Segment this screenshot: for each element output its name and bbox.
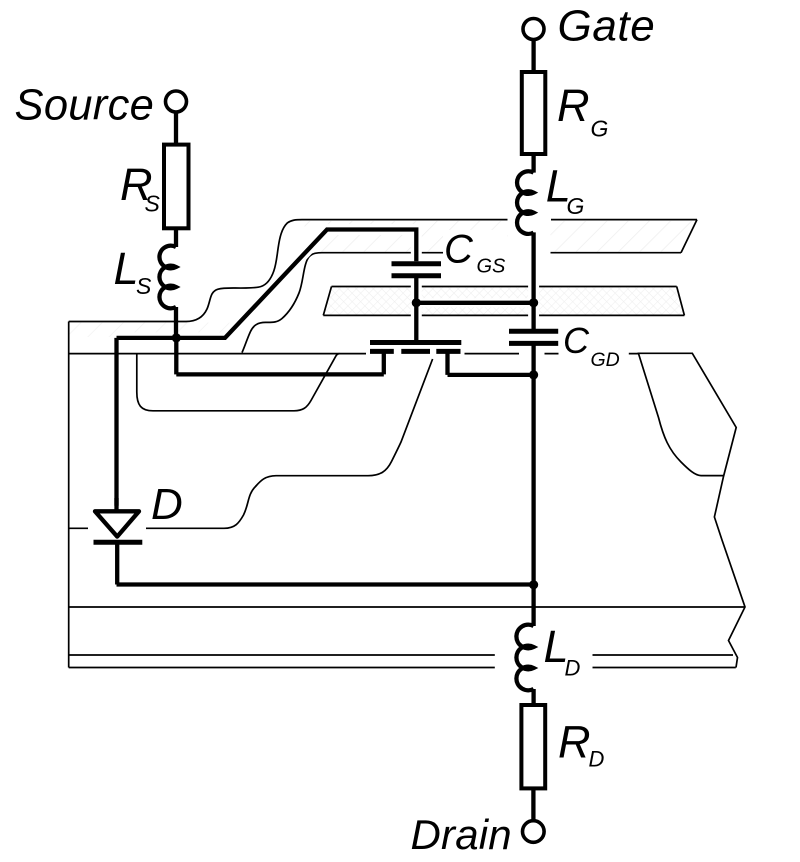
svg-text:G: G <box>591 116 609 142</box>
capacitor CGS <box>392 264 442 276</box>
mosfet drain contact <box>448 351 534 375</box>
white mask right of C_GD wire <box>519 346 545 361</box>
svg-text:D: D <box>565 655 581 680</box>
node diode-drain <box>529 580 538 589</box>
svg-text:L: L <box>114 243 139 294</box>
drain funnel right outline and die right edge <box>638 353 746 667</box>
wire LS to node <box>174 307 178 338</box>
wire CGS to gate node <box>414 276 418 340</box>
svg-text:C: C <box>444 228 474 272</box>
wire RS to LS <box>174 228 178 247</box>
halo drain vert <box>528 343 539 480</box>
diode anode wire <box>114 498 118 511</box>
node CGS-gate <box>412 298 421 307</box>
inductor LS <box>159 246 176 309</box>
white mask under C_GS label <box>443 230 507 277</box>
node mosfet drain <box>529 370 538 379</box>
halo gate vert <box>528 232 539 331</box>
backmetal line upper <box>69 654 733 656</box>
wire RD to drain terminal <box>531 788 535 820</box>
halo source net <box>117 230 417 338</box>
die surface line <box>69 353 639 355</box>
wire CGD to drain <box>531 343 535 626</box>
node gate <box>529 298 538 307</box>
svg-text:G: G <box>567 193 585 219</box>
resistor RD <box>521 705 545 788</box>
svg-text:GD: GD <box>591 349 620 371</box>
wire gate to RG <box>531 40 535 73</box>
body/epi curve <box>69 359 433 528</box>
svg-text:Gate: Gate <box>558 1 656 50</box>
wire RG to LG <box>531 154 535 173</box>
substrate line <box>69 606 745 608</box>
svg-text:S: S <box>145 190 161 216</box>
die outline left edge <box>68 322 70 668</box>
svg-text:C: C <box>563 320 590 361</box>
capacitor CGD <box>509 331 558 343</box>
svg-text:Drain: Drain <box>411 811 512 858</box>
bond wire upper outline <box>69 220 697 322</box>
resistor RG <box>522 72 546 154</box>
wire source to RS <box>174 112 178 145</box>
svg-text:S: S <box>136 273 152 299</box>
svg-text:D: D <box>151 480 183 529</box>
svg-text:GS: GS <box>477 256 507 278</box>
backmetal line lower <box>69 667 736 669</box>
top band right edge <box>681 220 697 253</box>
wire node to mosfet source <box>174 338 178 375</box>
bond wire lower outline <box>242 253 681 353</box>
gate runner band outline <box>323 287 684 316</box>
inductor LG <box>517 171 534 234</box>
source terminal circle <box>166 91 187 112</box>
resistor RS <box>164 145 189 229</box>
svg-text:Source: Source <box>15 82 155 130</box>
hatched source-metal strip <box>70 323 230 338</box>
hatched gate runner band (crosshatch) <box>324 287 683 314</box>
white mask for gate coil clearance <box>508 206 551 257</box>
node source <box>172 333 181 342</box>
drain funnel left outline <box>639 354 724 476</box>
halo gate horiz <box>416 298 533 307</box>
svg-text:D: D <box>589 747 605 772</box>
white mask under C_GD label <box>559 345 629 371</box>
halo CGS wire <box>411 276 422 340</box>
diode D <box>88 522 146 535</box>
junction dots <box>172 298 539 589</box>
diode branch wire <box>114 338 118 510</box>
svg-text:R: R <box>558 716 591 767</box>
wire LD to RD <box>531 689 535 705</box>
hatched bond ribbon band (top band) <box>301 221 696 252</box>
p-well outline <box>137 354 340 411</box>
drain terminal circle <box>523 821 545 843</box>
source net wire <box>117 230 417 338</box>
svg-text:R: R <box>557 80 590 131</box>
gate horizontal wire <box>416 301 533 305</box>
mosfet gate bar <box>370 340 461 345</box>
mosfet source contact <box>176 351 383 374</box>
gate terminal circle <box>523 19 544 40</box>
white mask under MOSFET <box>366 337 465 357</box>
wire LG down <box>531 232 535 331</box>
mosfet channel segments <box>370 349 461 354</box>
inductor LD <box>516 625 533 691</box>
diode cathode bar <box>94 540 143 545</box>
diode to drain rail <box>117 542 534 584</box>
